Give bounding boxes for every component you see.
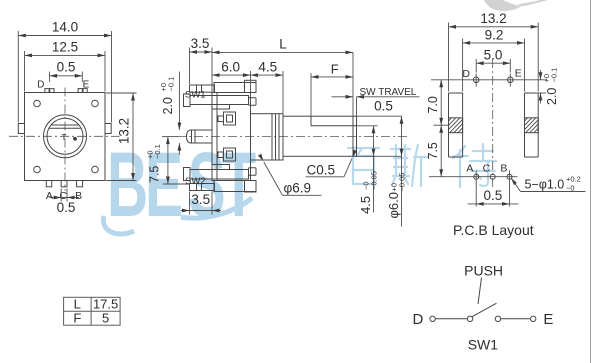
svg-text:A: A — [46, 190, 53, 202]
dimension 13.2 — [106, 93, 137, 181]
dimension 13.2 pcb — [449, 11, 539, 91]
svg-text:SW2: SW2 — [185, 176, 206, 187]
dimension 3.5 bottom — [181, 192, 221, 215]
hole C — [490, 174, 495, 179]
SW1 terminal tab — [190, 96, 249, 105]
svg-text:3.5: 3.5 — [191, 192, 210, 207]
svg-text:D: D — [462, 68, 470, 80]
pcb hole row line DE — [431, 79, 547, 81]
svg-text:0.5: 0.5 — [57, 200, 76, 215]
svg-text:13.2: 13.2 — [117, 118, 132, 144]
svg-text:−0.05: −0.05 — [398, 173, 407, 192]
wire E — [501, 318, 531, 320]
dimension SW TRAVEL 0.5 — [332, 87, 420, 116]
dimension 14.0 — [18, 20, 111, 123]
index dot — [73, 137, 77, 141]
pivot node — [467, 316, 472, 321]
SW2 end cap — [249, 168, 257, 176]
slot right hatch — [525, 118, 539, 133]
terminal D node — [430, 316, 435, 321]
svg-text:T: T — [62, 133, 67, 142]
dimension 7.5 — [146, 137, 191, 184]
watermark swash B — [103, 216, 134, 234]
shaft top extension — [357, 115, 403, 117]
dimension 0.5 pcb — [468, 171, 519, 207]
watermark swash — [181, 198, 252, 218]
svg-text:−0.05: −0.05 — [370, 171, 379, 190]
svg-text:+0.2: +0.2 — [566, 175, 581, 184]
dimension 0.5 bottom — [50, 189, 80, 216]
shaft inner circle — [47, 118, 83, 154]
dimension 4.5 shaft — [358, 126, 379, 214]
pcb vertical centerline — [492, 59, 494, 190]
svg-text:14.0: 14.0 — [52, 20, 78, 35]
pin B — [77, 181, 83, 187]
flat extension — [357, 125, 378, 127]
svg-text:2.0: 2.0 — [545, 88, 559, 105]
dimension 0.5 top — [50, 60, 83, 83]
label phi 6.9 — [258, 154, 321, 196]
page right border — [590, 0, 592, 363]
body plate line — [216, 93, 218, 181]
shaft flat chord lower — [49, 127, 81, 129]
shaft outer circle — [44, 115, 87, 158]
dimension 7.0 — [426, 80, 450, 125]
front left tab — [18, 124, 24, 134]
shaft flat chord upper — [51, 124, 79, 126]
DE pins side — [214, 83, 256, 93]
push rod — [478, 278, 482, 305]
svg-text:E: E — [515, 67, 522, 79]
svg-text:7.0: 7.0 — [426, 96, 440, 113]
svg-text:−0.1: −0.1 — [153, 144, 162, 159]
dimension F — [311, 62, 353, 117]
svg-text:D: D — [37, 79, 44, 90]
svg-text:L: L — [74, 297, 81, 312]
dimension 6.0 — [212, 60, 251, 114]
dimension L — [212, 37, 353, 117]
dimension 5.0 — [476, 48, 510, 73]
svg-text:P.C.B Layout: P.C.B Layout — [453, 222, 534, 238]
slot left hatch — [449, 118, 463, 133]
svg-text:SW1: SW1 — [185, 90, 206, 101]
bottom leg — [190, 184, 215, 191]
watermark char bai — [348, 148, 379, 184]
svg-text:F: F — [331, 62, 339, 77]
svg-text:12.5: 12.5 — [52, 40, 78, 55]
svg-text:4.5: 4.5 — [358, 196, 373, 214]
svg-text:5−φ1.0: 5−φ1.0 — [525, 177, 565, 191]
top leg — [190, 85, 215, 92]
svg-text:L: L — [279, 37, 287, 52]
front body — [25, 93, 106, 181]
dimension 9.2 — [463, 27, 525, 91]
svg-text:5: 5 — [102, 311, 109, 326]
shaft flat step — [310, 116, 312, 126]
corner swoosh — [484, 0, 521, 11]
push plunger — [187, 130, 213, 143]
svg-text:0.5: 0.5 — [57, 60, 76, 75]
pin D pair — [45, 89, 49, 93]
svg-text:−0.1: −0.1 — [167, 77, 176, 92]
svg-text:E: E — [145, 134, 183, 236]
side body — [212, 93, 251, 181]
dimension 3.5 top — [190, 36, 213, 92]
corner hole top-left — [34, 100, 41, 107]
dimension 4.5 — [251, 60, 284, 114]
svg-text:C: C — [483, 162, 491, 174]
label 5-phi1.0 — [509, 175, 585, 193]
svg-text:7.5: 7.5 — [148, 166, 162, 183]
corner hole bottom-left — [34, 166, 41, 173]
table L F — [64, 297, 121, 326]
svg-text:−0.1: −0.1 — [550, 68, 559, 83]
pin A — [46, 181, 51, 187]
svg-text:0.5: 0.5 — [374, 99, 393, 114]
side view centerline — [177, 136, 410, 138]
svg-text:B: B — [75, 190, 82, 202]
watermark BEST — [107, 134, 256, 236]
svg-text:7.5: 7.5 — [426, 142, 440, 159]
dimension 7.5 pcb — [426, 125, 443, 177]
hole A — [474, 174, 479, 179]
pin E pair — [78, 89, 82, 93]
switch arm — [472, 303, 497, 317]
slot right — [525, 93, 539, 157]
svg-text:φ6.0: φ6.0 — [386, 192, 401, 219]
wire D — [435, 318, 467, 320]
corner hole bottom-right — [92, 166, 99, 173]
svg-text:D: D — [412, 311, 423, 328]
svg-text:0.5: 0.5 — [484, 188, 503, 203]
dimension 2.0 pcb — [537, 68, 560, 105]
svg-text:C0.5: C0.5 — [307, 163, 336, 178]
svg-text:4.5: 4.5 — [258, 60, 277, 75]
svg-text:PUSH: PUSH — [464, 262, 503, 278]
front view centerline vertical — [64, 88, 66, 192]
svg-text:2.0: 2.0 — [161, 97, 175, 114]
shaft bottom extension — [357, 155, 403, 157]
svg-text:A: A — [466, 162, 473, 174]
fixed contact node — [495, 316, 500, 321]
svg-text:6.0: 6.0 — [221, 60, 240, 75]
watermark char te — [453, 144, 496, 187]
svg-text:SW1: SW1 — [468, 337, 499, 353]
bushing — [251, 114, 284, 160]
rivet upper — [224, 112, 236, 125]
front view centerline horizontal — [9, 135, 120, 137]
svg-text:E: E — [543, 311, 553, 328]
SW1 end cap — [249, 98, 257, 106]
svg-text:3.5: 3.5 — [191, 36, 210, 51]
pcb hole row line ACB — [429, 176, 518, 178]
slot left — [449, 93, 463, 157]
svg-text:E: E — [83, 79, 90, 90]
svg-text:T: T — [221, 134, 256, 236]
watermark char si — [391, 145, 427, 186]
svg-text:SW TRAVEL: SW TRAVEL — [360, 87, 417, 98]
dimension phi 6.0 shaft — [386, 116, 407, 226]
pin C — [61, 181, 67, 187]
terminal E node — [531, 316, 536, 321]
ACB pins side — [214, 181, 256, 192]
svg-text:B: B — [107, 134, 148, 236]
shaft — [283, 116, 357, 156]
shaft pressed end — [352, 116, 354, 156]
svg-text:5.0: 5.0 — [484, 48, 503, 63]
SW2 terminal tab — [190, 170, 249, 180]
svg-text:−0: −0 — [566, 184, 575, 193]
hole E — [508, 77, 514, 83]
svg-text:17.5: 17.5 — [93, 297, 118, 312]
hole D — [473, 77, 479, 83]
hole B — [507, 174, 512, 179]
svg-text:φ6.9: φ6.9 — [284, 181, 312, 196]
shaft flat line — [311, 125, 357, 127]
front right tab — [105, 124, 111, 134]
label C0.5 — [306, 150, 358, 178]
corner hole top-right — [92, 100, 99, 107]
svg-text:F: F — [73, 311, 81, 326]
svg-text:13.2: 13.2 — [480, 11, 506, 26]
svg-text:9.2: 9.2 — [485, 27, 504, 42]
dimension 2.0 — [159, 72, 181, 156]
dimension 12.5 — [25, 40, 106, 92]
rivet lower — [224, 148, 236, 161]
svg-text:B: B — [500, 162, 507, 174]
